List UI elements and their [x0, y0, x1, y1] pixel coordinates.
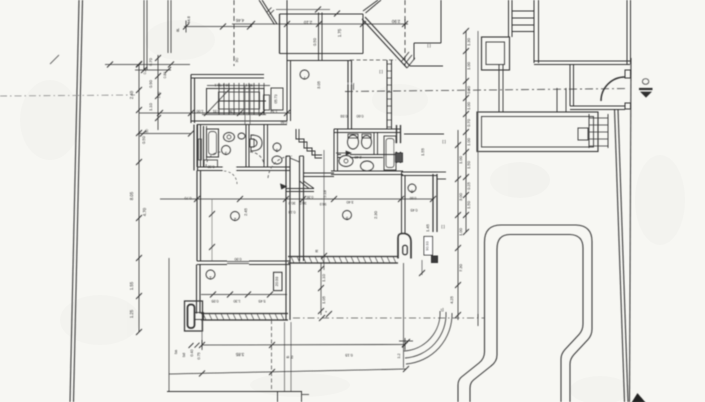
room7 number circle: [300, 70, 309, 79]
stairs east of hall: [588, 114, 590, 148]
svg-text:1.10: 1.10: [321, 273, 326, 282]
boundary segment north-2 (double): [167, 0, 169, 53]
boxed label 0.30: [204, 160, 218, 167]
svg-text:1.00: 1.00: [466, 101, 471, 110]
entry door arc (dashed): [268, 156, 292, 178]
chain connector y70: [135, 69, 171, 71]
svg-text:3.40: 3.40: [347, 200, 354, 204]
svg-text:1.2: 1.2: [397, 354, 401, 359]
shaft top caps: [286, 155, 290, 157]
svg-text:0.75: 0.75: [197, 353, 201, 360]
wc room east wall: [404, 133, 444, 135]
vertical line x287 to page top: [286, 0, 288, 61]
section centerline west (faint dash-dot): [0, 95, 135, 96]
tick crosses y318: [319, 315, 325, 321]
door arc NE: [601, 77, 625, 101]
faint line y9: [276, 9, 330, 11]
neighbour interior walls: [498, 65, 500, 113]
bathtub A: [207, 129, 219, 157]
porch mid chain: [320, 263, 322, 315]
svg-text:0.70: 0.70: [185, 196, 192, 200]
washbasin A ovals: [224, 133, 235, 142]
svg-text:0.60: 0.60: [357, 114, 364, 118]
bath divider x264: [263, 125, 265, 168]
neighbour south wall (double): [534, 60, 630, 62]
roof hip diagonal (double): [365, 17, 410, 66]
dashed axis line x405: [404, 0, 406, 66]
svg-text:1.05: 1.05: [321, 295, 326, 304]
svg-text:3C: 3C: [235, 57, 239, 62]
small room below stairs: [578, 128, 588, 140]
svg-text:1.75: 1.75: [337, 28, 342, 37]
window sill west: [199, 139, 202, 160]
concentric dimension arcs: [404, 311, 440, 351]
bottom tab: [277, 392, 279, 402]
small shaft right of stairs: [264, 95, 270, 110]
dashed extension x271: [271, 320, 273, 392]
svg-text:0.18: 0.18: [289, 210, 296, 214]
dashed axis line x234: [233, 0, 235, 66]
toilet B1: [348, 135, 359, 149]
room2 number circle: [231, 212, 240, 221]
survey marker symbol: [642, 79, 648, 85]
porch west wall (double): [196, 265, 198, 314]
wall pier dark: [432, 256, 438, 263]
chain connector y133: [139, 133, 191, 135]
svg-text:4.25: 4.25: [449, 295, 454, 304]
svg-text:2.40: 2.40: [355, 155, 362, 159]
hatch marks annex corner: [401, 52, 409, 62]
svg-text:4.70: 4.70: [142, 207, 147, 216]
chimney bulge: [398, 234, 411, 259]
svg-text:2.10: 2.10: [303, 20, 312, 25]
neighbour wall west (double): [533, 0, 535, 63]
svg-text:9E.1: 9E.1: [245, 83, 252, 87]
room5 number circle: [343, 211, 352, 220]
dimension line B y372: [169, 369, 406, 374]
room8 west wall (double): [401, 172, 403, 233]
annex square room: [482, 37, 510, 70]
svg-text:0.90: 0.90: [148, 79, 153, 88]
dashed wall line y60: [350, 59, 396, 61]
extension line x422: [421, 260, 423, 275]
svg-text:0.50: 0.50: [312, 37, 317, 46]
upper corridor wall y121 (double): [191, 120, 287, 122]
stairwell north wall (double): [191, 74, 264, 76]
right chain line b: [477, 31, 479, 318]
left chain second line: [157, 55, 159, 130]
tick on terrace top: [334, 11, 340, 17]
svg-text:0.25: 0.25: [466, 181, 471, 190]
svg-text:7.30: 7.30: [458, 263, 463, 272]
annex NE stepped corner: [440, 0, 442, 43]
right chain a ticks: [463, 28, 469, 34]
bottom rail y391: [167, 391, 302, 393]
svg-text:0.30: 0.30: [208, 165, 215, 169]
boxed label 05.73: [271, 88, 283, 110]
svg-text:06.1 06.1: 06.1 06.1: [215, 83, 230, 87]
bath A inner wall: [203, 126, 205, 167]
extension line x403: [403, 263, 405, 368]
svg-text:98.0: 98.0: [320, 202, 327, 206]
svg-text:0.95: 0.95: [212, 299, 219, 303]
svg-text:3.85: 3.85: [235, 352, 244, 357]
svg-text:1.00: 1.00: [458, 155, 463, 164]
shaft flare junction: [286, 188, 314, 190]
stairwell west wall (double): [190, 75, 192, 124]
chain connector y64: [105, 64, 190, 66]
svg-text:[ ]: [ ]: [441, 225, 444, 229]
bath divider x246: [245, 125, 247, 168]
living north wall segment: [304, 172, 335, 174]
shaft west wall (double): [285, 156, 287, 320]
svg-text:50: 50: [145, 129, 149, 133]
mid dimension line y199: [160, 198, 434, 200]
staircase block: [207, 89, 265, 114]
house north wall room7: [287, 60, 351, 62]
room3a number circle: [222, 146, 231, 155]
dim extension x324: [323, 150, 325, 270]
short diagonal mark top-left: [50, 55, 59, 64]
extension line x202: [201, 320, 203, 347]
room3b fixture: [272, 156, 282, 164]
svg-text:2.30: 2.30: [373, 210, 378, 219]
site boundary east pair R2: [615, 109, 625, 402]
svg-text:bd: bd: [182, 353, 186, 357]
room2 south wall with door: [197, 260, 227, 262]
driveway outer curb: [458, 225, 592, 402]
svg-text:0.50: 0.50: [141, 135, 146, 144]
svg-text:R: R: [314, 249, 319, 252]
living south wall (double+hatch): [288, 256, 398, 258]
svg-text:1.25: 1.25: [129, 309, 134, 318]
room8 north wall: [402, 171, 438, 173]
svg-text:1.30: 1.30: [466, 37, 471, 46]
section centerline east (dash-dot): [345, 89, 628, 92]
room7 west wall (double): [286, 61, 288, 121]
shaft east wall (double): [299, 156, 301, 261]
svg-text:2.40: 2.40: [129, 90, 134, 99]
svg-text:0.91: 0.91: [213, 109, 220, 113]
bath B divider: [373, 133, 375, 155]
svg-text:2.45: 2.45: [243, 207, 248, 216]
room2 west wall (double): [196, 171, 198, 262]
neighbour room south wall (double): [570, 105, 625, 107]
svg-text:1.50: 1.50: [466, 200, 471, 209]
right chain line c: [457, 130, 459, 320]
boundary segment north-1 (double): [143, 0, 145, 70]
svg-text:2.90: 2.90: [391, 19, 400, 24]
entry steps zigzag: [296, 129, 322, 155]
bathtub B: [384, 136, 396, 170]
extension line x169: [168, 258, 170, 392]
neighbour room wall west (double): [569, 65, 571, 107]
dimension line A y345: [202, 344, 405, 347]
terrace inner divider (double): [318, 13, 320, 61]
svg-text:1.34: 1.34: [271, 109, 278, 113]
svg-text:1.30: 1.30: [234, 299, 241, 303]
svg-text:0.30: 0.30: [307, 195, 314, 199]
svg-text:5.18: 5.18: [322, 189, 327, 198]
toilet B2: [362, 136, 372, 149]
svg-text:1.36: 1.36: [229, 109, 236, 113]
svg-text:kv: kv: [290, 355, 294, 359]
fixtures bath row2: [339, 156, 353, 167]
dim extension x245 x250: [244, 86, 246, 124]
svg-text:0.90: 0.90: [235, 257, 242, 261]
north arrow (filled): [633, 394, 645, 402]
bath B east wall (dark): [396, 125, 398, 163]
svg-text:3.00: 3.00: [458, 192, 463, 201]
svg-text:1.00: 1.00: [466, 61, 471, 70]
svg-text:05.73: 05.73: [274, 95, 278, 104]
dash-dot line y318: [293, 317, 484, 319]
svg-text:1.55: 1.55: [129, 281, 134, 290]
pillar box left: [185, 301, 203, 331]
svg-text:[1: [1: [441, 308, 444, 312]
svg-text:44.6: 44.6: [186, 15, 191, 24]
left chain tick marks: [136, 61, 142, 67]
bath B middle wall: [338, 154, 342, 156]
dimension line y24 across roof: [232, 23, 408, 25]
svg-text:8L: 8L: [176, 28, 180, 32]
room2 interior dim line: [211, 199, 213, 261]
site boundary west (double line): [70, 0, 79, 402]
svg-text:[ ]: [ ]: [427, 44, 430, 48]
porch east wall: [285, 265, 287, 321]
right chain line a: [465, 31, 467, 232]
extension pair x284 x291: [284, 322, 286, 392]
boxed label 90.93: [424, 237, 433, 256]
svg-text:4.46: 4.46: [235, 18, 244, 23]
door gap bath A: [223, 166, 236, 172]
svg-text:8.05: 8.05: [129, 191, 134, 200]
bath block B outline: [333, 129, 335, 171]
svg-text:90.93: 90.93: [426, 241, 430, 251]
lower hall rectangle: [477, 112, 598, 152]
roof diagonal NW (double): [262, 0, 277, 24]
svg-text:0.40: 0.40: [190, 350, 194, 357]
svg-text:1.00: 1.00: [197, 109, 204, 113]
upper dim line y113: [139, 112, 290, 114]
room7 east wall (double): [347, 61, 349, 130]
svg-text:30.0: 30.0: [289, 201, 296, 205]
svg-text:1.45: 1.45: [425, 223, 430, 232]
svg-text:1.50: 1.50: [466, 160, 471, 169]
svg-text:5.45: 5.45: [259, 299, 266, 303]
svg-text:20.93: 20.93: [275, 277, 279, 287]
neighbour stairs block: [508, 0, 510, 37]
bath block A outline: [196, 125, 198, 168]
room1 number circle: [206, 270, 215, 279]
room3b number circle: [273, 143, 281, 151]
dimension line top-left y26: [184, 26, 252, 28]
room8 number circle: [408, 184, 416, 192]
arrow mark bath: [336, 152, 351, 154]
west outer wall bath level: [193, 125, 195, 171]
toilet A (U shape): [251, 135, 262, 151]
porch dim line y294: [201, 294, 287, 296]
svg-text:0.60: 0.60: [410, 196, 417, 200]
roof ridge NE (double): [366, 0, 382, 13]
svg-text:ba: ba: [174, 350, 178, 354]
svg-text:0.60: 0.60: [281, 120, 288, 124]
svg-text:1.10: 1.10: [148, 102, 153, 111]
boxed label 20.93: [274, 272, 283, 290]
svg-text:[ ]: [ ]: [442, 140, 445, 144]
svg-text:[ ]: [ ]: [379, 70, 382, 74]
upper dim extra: [237, 110, 243, 116]
svg-text:1.55: 1.55: [420, 147, 425, 156]
svg-text:0.15: 0.15: [345, 353, 352, 357]
site boundary east line R1: [630, 58, 632, 402]
right chain c ticks: [455, 142, 461, 148]
svg-text:1.00: 1.00: [458, 227, 463, 236]
svg-text:3.05: 3.05: [316, 80, 321, 89]
neighbour wall east (double): [626, 0, 628, 64]
door arcs bath A (dashed): [206, 152, 221, 167]
svg-text:0.93: 0.93: [341, 114, 348, 118]
svg-text:0.45: 0.45: [411, 208, 418, 212]
porch south wall (double+hatch): [201, 313, 288, 315]
svg-text:1.00: 1.00: [466, 137, 471, 146]
svg-text:0.80: 0.80: [466, 85, 471, 94]
driveway inner curb: [470, 235, 583, 402]
hatched exterior wall (ladder): [386, 60, 388, 129]
room8 east wall (thick): [432, 174, 434, 232]
terrace rectangle top: [280, 13, 364, 15]
left dimension chain line: [138, 64, 140, 332]
window sill east terrace: [346, 83, 353, 85]
svg-text:0.70: 0.70: [466, 118, 471, 127]
